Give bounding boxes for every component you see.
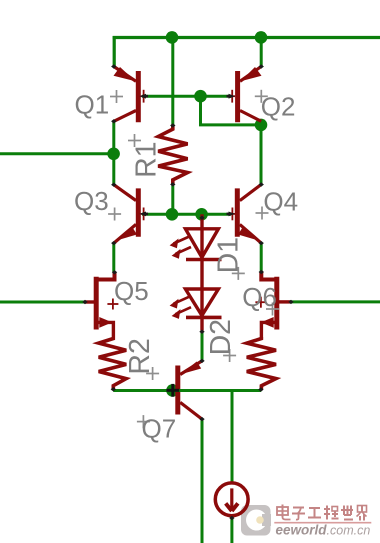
wire Q4 emitter to Q6 collector [260,243,263,272]
base pin arrow Q4 [229,212,236,217]
watermark chinese text [277,505,367,521]
svg-text:R2: R2 [124,338,156,374]
resistor R1 [158,125,187,184]
base pin arrow Q1 [140,94,147,99]
wire Q6 base right [291,300,380,303]
transistor Q1 [114,67,149,123]
transistor Q7 [178,361,202,419]
wire R2 bottom stub [112,388,115,391]
wire current source bottom [230,517,233,543]
char dian [277,505,291,520]
LED D2 [170,289,222,331]
wire mid base bus Q3-Q4 [142,213,231,216]
char gong [309,507,320,509]
svg-text:Q1: Q1 [75,89,110,119]
wire R1 top [171,37,174,125]
wire bus overlay across Q7 bar [174,389,183,392]
junction Q2 collector node [255,119,268,132]
junction top rail left [166,31,179,44]
base pin arrow Q2 [229,94,236,99]
svg-text:Q2: Q2 [261,92,296,122]
wire Q7 collector down [201,419,204,543]
wire Q2 collector to Q4 collector [260,125,263,185]
wire Q1 collector to Q3 collector [112,121,115,184]
svg-text:Q6: Q6 [242,282,277,312]
wire R1 bottom [171,184,174,214]
base pin arrow Q3 [140,212,147,217]
char cheng [324,508,330,510]
pin end black markers [82,64,293,520]
svg-text:D1: D1 [212,237,244,273]
transistor Q3 [114,185,148,243]
junction top rail right [255,31,268,44]
black pin cross Q7 base [166,384,179,397]
svg-text:R1: R1 [131,141,163,177]
junction node A [107,148,120,161]
svg-text:Q7: Q7 [142,414,177,444]
char zi [293,507,304,509]
svg-text:Q4: Q4 [263,187,298,217]
wire top rail V+ [113,36,380,39]
svg-text:Q5: Q5 [114,276,149,306]
junction base bus node [194,90,207,103]
current source I1 [215,483,248,516]
svg-text:D2: D2 [205,319,237,355]
wire Q5 base left [0,301,84,304]
wire bottom bus R2 to R3 [113,389,261,392]
transistor Q4 [228,185,261,244]
char jie [358,506,367,513]
LED D1 [170,214,222,289]
transistor Q6 [255,272,291,337]
transistor Q2 [228,67,262,123]
junction Q7 base node [166,384,179,397]
wire Q2 emitter drop [260,37,263,67]
wire left input to node A [0,152,114,155]
wire base bus Q1-Q2 [142,95,231,98]
wire D2 cathode to Q7 emitter [201,330,204,361]
svg-text:Q3: Q3 [74,186,109,216]
junction R1 bottom node [166,208,179,221]
gray origin crosses [108,90,279,428]
wire diode-connect Q2 [201,96,262,125]
char shi [341,509,353,511]
wire Q3 emitter to Q5 collector [112,243,115,272]
wire Q1 emitter drop [113,36,116,67]
junction D1 anode node [195,208,208,221]
resistor R2 [99,337,127,389]
wire bus to current source [231,391,234,482]
watermark eeworld logo [241,505,271,536]
wire R3 bottom stub [260,386,263,391]
watermark underline [274,522,371,524]
resistor R3 [247,337,276,389]
transistor Q5 [84,272,118,337]
svg-text:eeworld.com.cn: eeworld.com.cn [276,523,371,538]
